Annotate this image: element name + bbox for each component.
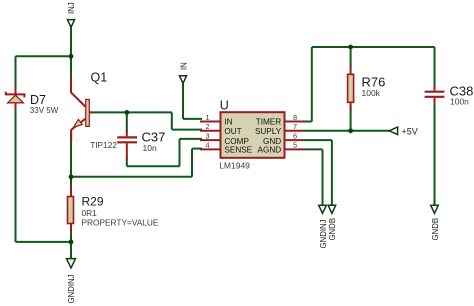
svg-text:PROPERTY=VALUE: PROPERTY=VALUE (82, 217, 159, 227)
svg-text:10n: 10n (143, 143, 157, 153)
svg-text:0R1: 0R1 (82, 208, 98, 218)
svg-text:5: 5 (293, 141, 297, 150)
svg-text:D7: D7 (30, 93, 46, 107)
svg-text:TIP122: TIP122 (90, 140, 117, 150)
svg-text:TIMER: TIMER (256, 118, 282, 127)
svg-text:COMP: COMP (224, 137, 249, 146)
svg-text:3: 3 (205, 131, 209, 140)
svg-text:GNDINJ: GNDINJ (67, 274, 76, 303)
svg-text:R76: R76 (362, 74, 386, 89)
svg-text:SUPLY: SUPLY (255, 127, 282, 136)
svg-text:INJ: INJ (67, 2, 76, 14)
svg-text:8: 8 (293, 113, 297, 122)
svg-text:1: 1 (205, 113, 209, 122)
svg-text:U: U (220, 98, 229, 112)
svg-text:4: 4 (205, 141, 209, 150)
svg-text:OUT: OUT (224, 127, 241, 136)
svg-text:C37: C37 (142, 129, 166, 144)
svg-text:SENSE: SENSE (224, 146, 252, 155)
svg-text:2: 2 (205, 122, 209, 131)
svg-text:GND: GND (263, 137, 281, 146)
svg-text:GNDINJ: GNDINJ (319, 219, 328, 248)
svg-text:100n: 100n (450, 97, 469, 107)
svg-text:AGND: AGND (258, 146, 282, 155)
svg-text:+5V: +5V (402, 126, 418, 136)
svg-text:GNDB: GNDB (328, 218, 337, 241)
svg-text:Q1: Q1 (91, 71, 108, 85)
svg-text:7: 7 (293, 122, 297, 131)
svg-text:GNDB: GNDB (431, 218, 440, 241)
svg-text:LM1949: LM1949 (219, 161, 250, 171)
svg-text:6: 6 (293, 131, 297, 140)
svg-text:IN: IN (224, 118, 232, 127)
svg-text:R29: R29 (82, 194, 104, 208)
svg-text:IN: IN (179, 62, 188, 70)
svg-text:33V 5W: 33V 5W (30, 106, 59, 115)
svg-text:100k: 100k (362, 88, 381, 98)
